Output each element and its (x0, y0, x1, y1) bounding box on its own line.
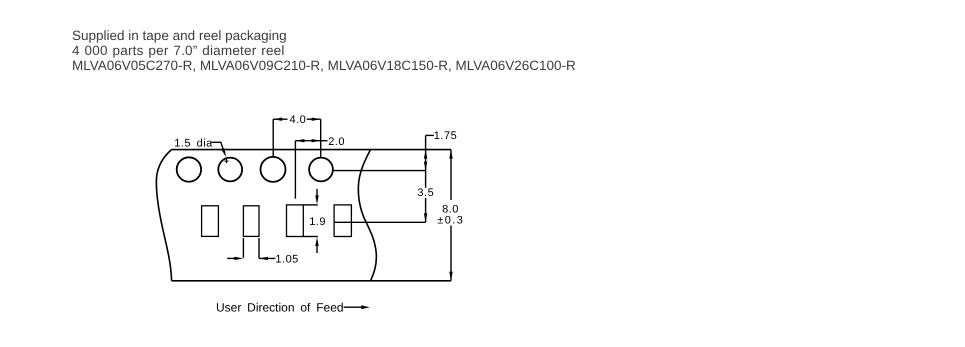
svg-text:1.05: 1.05 (275, 253, 298, 265)
svg-text:1.9: 1.9 (309, 216, 326, 228)
svg-text:1.75: 1.75 (434, 130, 457, 142)
svg-text:dia: dia (197, 137, 214, 149)
svg-text:4.0: 4.0 (290, 114, 307, 126)
svg-text:3.5: 3.5 (417, 187, 434, 199)
svg-text:±0.3: ±0.3 (437, 214, 464, 226)
svg-text:User Direction of Feed: User Direction of Feed (216, 301, 344, 315)
svg-text:1.5: 1.5 (174, 137, 191, 149)
svg-text:2.0: 2.0 (328, 136, 345, 148)
